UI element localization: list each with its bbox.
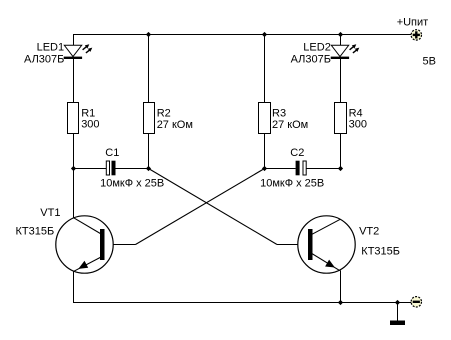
terminal minus (411, 297, 421, 307)
wire right column upper (rail to LED2) (340, 34, 342, 46)
wire R2 to node B (148, 133, 150, 169)
svg-text:C2: C2 (290, 147, 304, 159)
svg-text:5В: 5В (423, 56, 436, 68)
svg-text:VT1: VT1 (40, 207, 60, 219)
transistor VT2 (298, 216, 355, 273)
wire left column upper (rail to LED1) (73, 34, 75, 46)
node junction ground stub (395, 300, 400, 305)
svg-text:300: 300 (81, 118, 99, 130)
wire cross-coupling node C to base VT1 (105, 169, 265, 245)
node junction R3 top (262, 32, 267, 37)
wire R1 to node A (73, 133, 75, 169)
ground (390, 321, 405, 326)
resistor R3 (259, 103, 271, 134)
node D junction (R4 bottom / C2 right / collector VT2) (338, 166, 343, 171)
wire LED1 to R1 (73, 59, 75, 103)
node B junction (R2 bottom / C1 right / base VT2) (146, 166, 151, 171)
wire node A to C1 (74, 168, 107, 170)
node junction R2 top (146, 32, 151, 37)
svg-text:АЛ307Б: АЛ307Б (24, 54, 64, 66)
resistor R4 (335, 103, 347, 134)
svg-text:10мкФ х 25В: 10мкФ х 25В (260, 177, 324, 189)
wire R4 to node D (340, 133, 342, 169)
node junction LED2 top (338, 32, 343, 37)
node A junction (collector VT1 / C1 left) (71, 166, 76, 171)
wire node A to collector VT1 (73, 169, 75, 218)
wire ground stub (397, 303, 399, 321)
capacitor C2 (296, 161, 307, 176)
wire node C to C2 (265, 168, 296, 170)
svg-text:АЛ307Б: АЛ307Б (291, 54, 331, 66)
wire R3 column upper (264, 34, 266, 103)
wire LED2 to R4 (340, 59, 342, 103)
LED LED1 (64, 44, 93, 59)
resistor R1 (68, 103, 79, 134)
svg-text:R2: R2 (157, 107, 171, 119)
wire R2 column upper (148, 34, 150, 103)
wire bottom rail (73, 302, 411, 304)
wire emitter VT1 to bottom rail (73, 271, 75, 302)
wire top rail (73, 34, 411, 36)
svg-text:300: 300 (349, 118, 367, 130)
resistor R2 (144, 103, 155, 134)
svg-text:27 кОм: 27 кОм (157, 119, 193, 131)
wire cross-coupling node B to base VT2 (149, 169, 309, 245)
capacitor C1 (106, 161, 115, 176)
LED LED2 (331, 44, 360, 59)
transistor VT1 (56, 216, 113, 273)
svg-text:27 кОм: 27 кОм (272, 119, 308, 131)
svg-text:+Uпит: +Uпит (397, 16, 429, 28)
svg-text:LED2: LED2 (303, 42, 331, 54)
wire C1 to node B (116, 168, 149, 170)
svg-text:КТ315Б: КТ315Б (16, 225, 55, 237)
node C junction (R3 bottom / C2 left / base VT1) (262, 166, 267, 171)
wire emitter VT2 to bottom rail (340, 271, 342, 303)
node junction VT2 emitter / bottom rail (338, 300, 343, 305)
svg-text:VT2: VT2 (359, 225, 379, 237)
svg-text:C1: C1 (105, 147, 119, 159)
svg-text:R3: R3 (272, 107, 286, 119)
wire C2 to node D (306, 168, 340, 170)
terminal +Uпит (411, 30, 421, 40)
svg-text:10мкФ х 25В: 10мкФ х 25В (100, 177, 164, 189)
svg-text:LED1: LED1 (37, 42, 65, 54)
wire R3 to node C (264, 133, 266, 169)
svg-text:КТ315Б: КТ315Б (361, 245, 400, 257)
